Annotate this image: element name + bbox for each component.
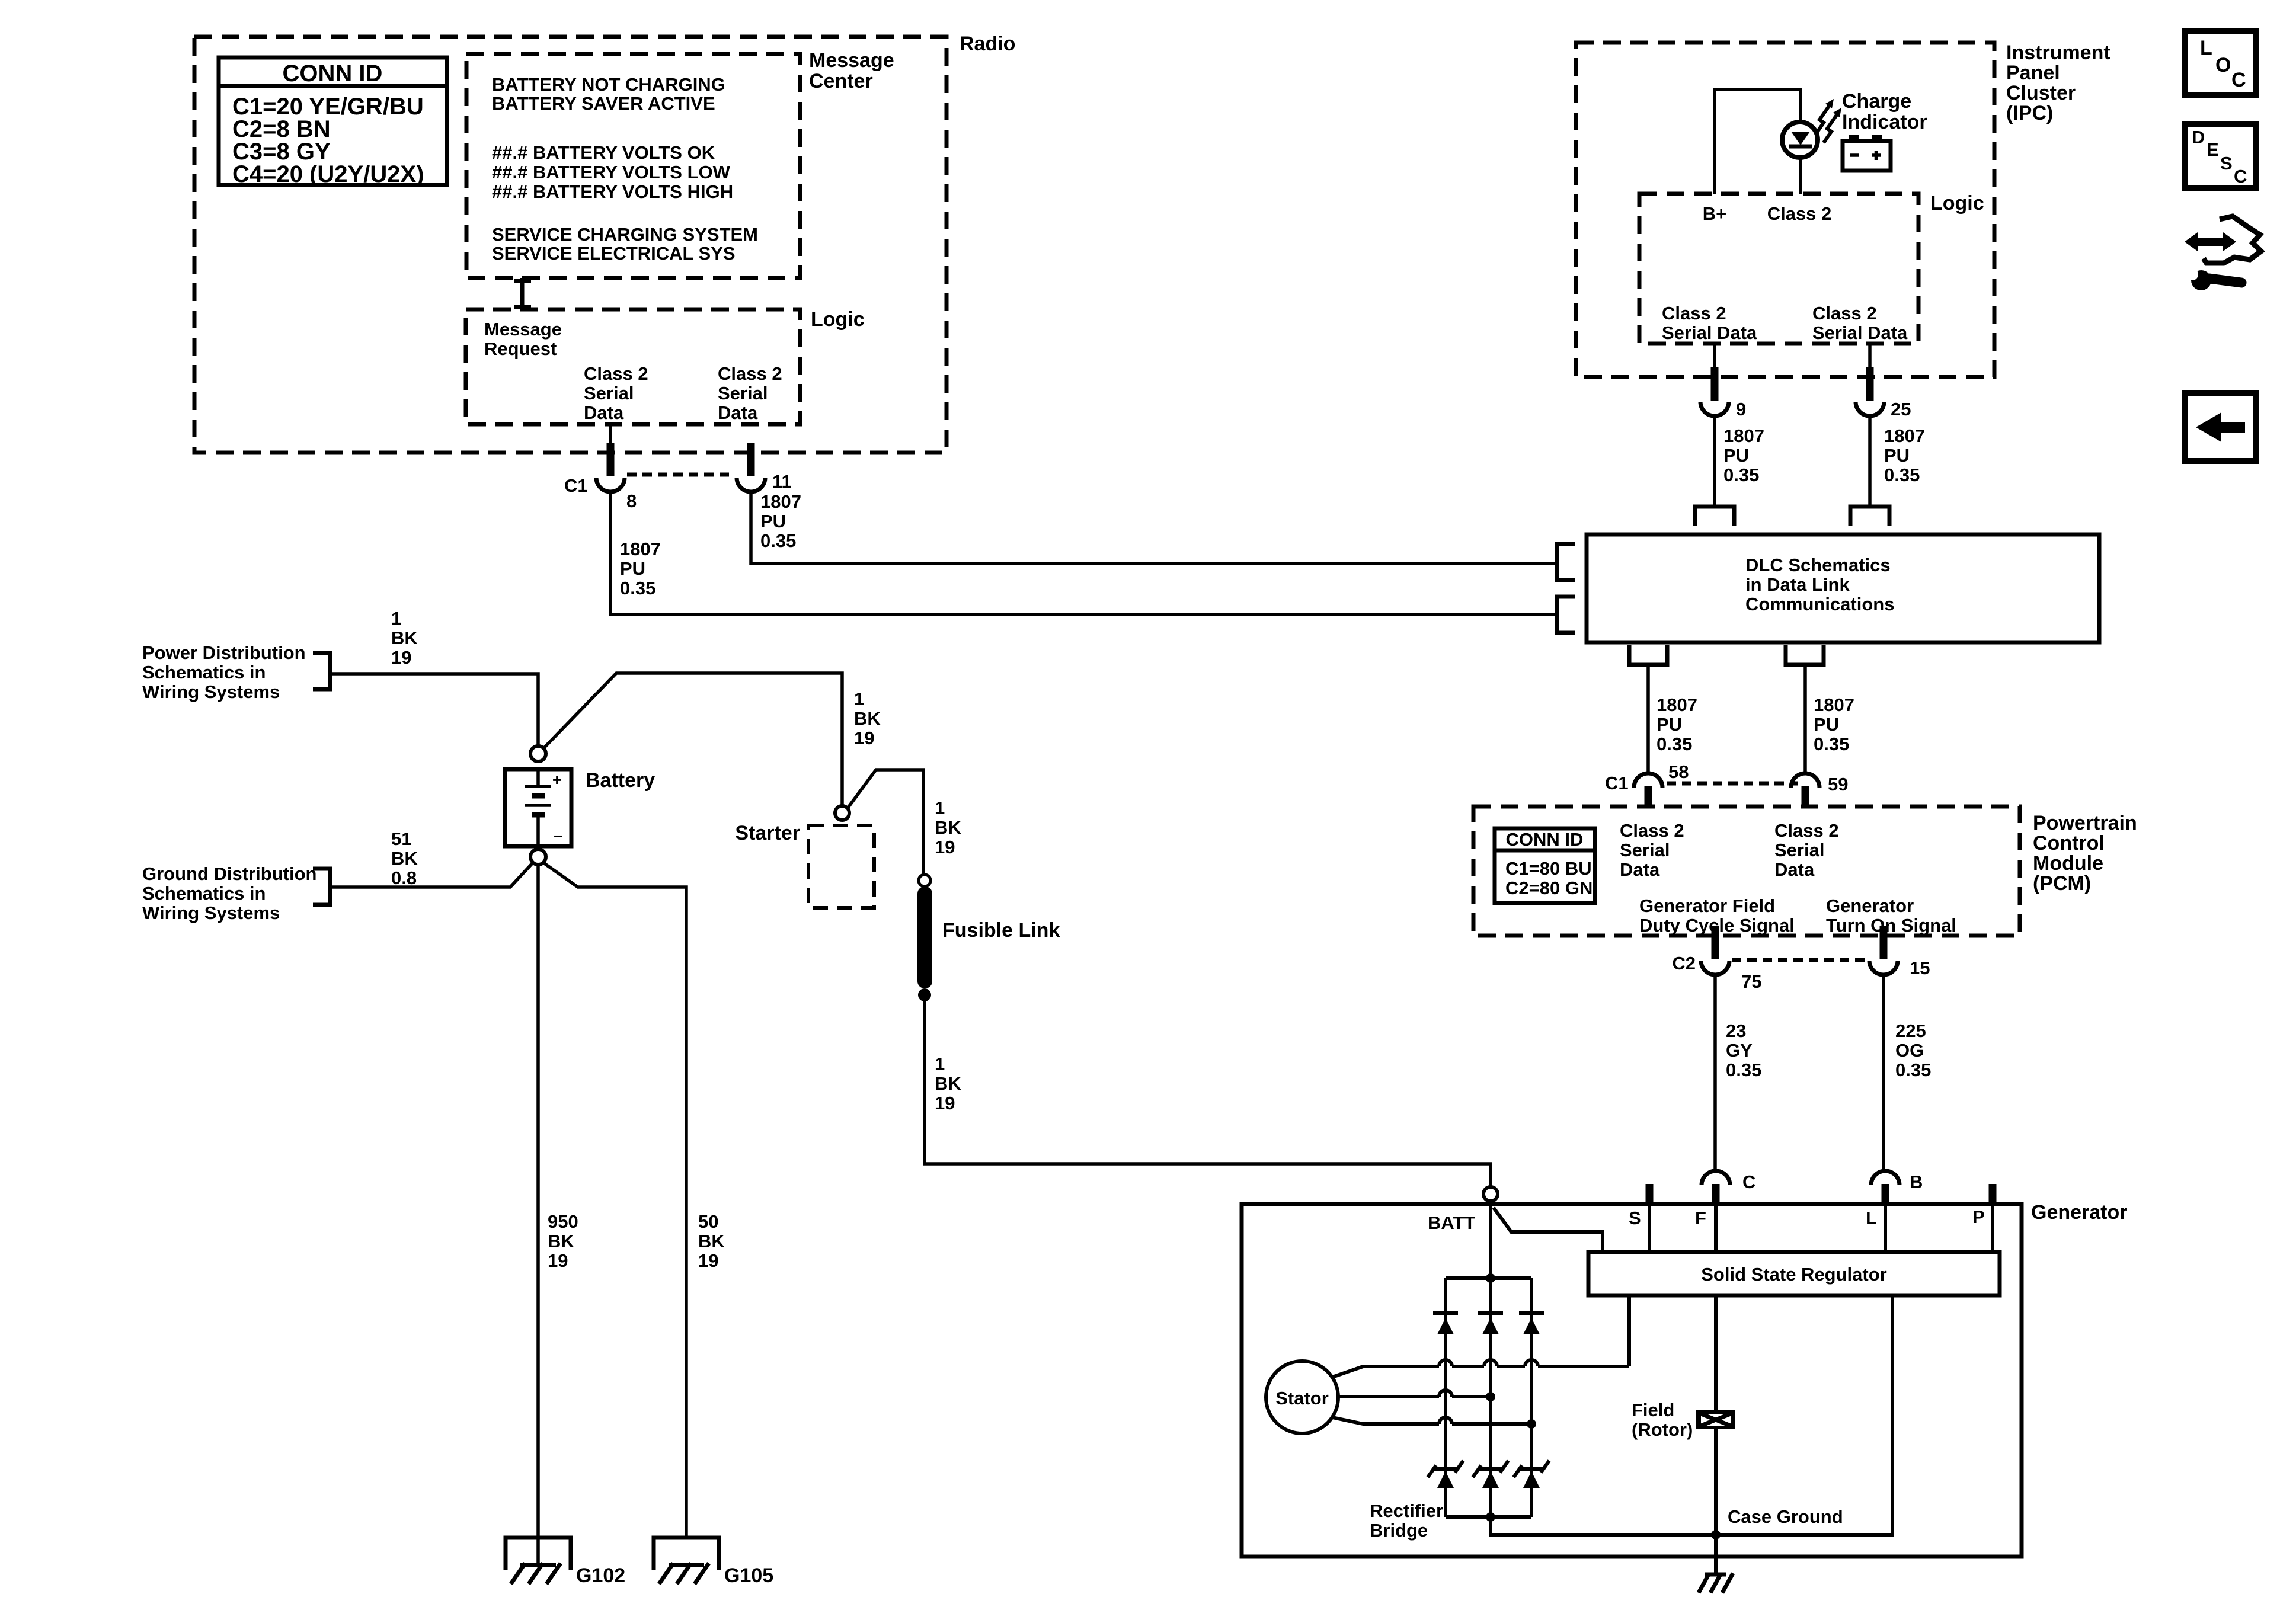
phase 2 junction — [1486, 1392, 1495, 1401]
svg-text:0.35: 0.35 — [1814, 734, 1849, 754]
svg-text:Charge: Charge — [1842, 90, 1911, 113]
svg-text:Schematics in: Schematics in — [142, 883, 266, 904]
svg-text:O: O — [2215, 54, 2231, 76]
S terminal stub — [1646, 1184, 1654, 1205]
battery icon — [1843, 135, 1891, 171]
svg-text:Radio: Radio — [960, 33, 1015, 55]
wire 23 GY to generator C — [1713, 975, 1717, 1173]
svg-text:1807: 1807 — [1884, 425, 1925, 446]
jump-to icon (double arrow, outline, wrench) — [2185, 216, 2261, 290]
svg-text:C4=20 (U2Y/U2X): C4=20 (U2Y/U2X) — [232, 161, 424, 187]
bridge column 1 — [1444, 1278, 1447, 1517]
F line — [1714, 1205, 1718, 1252]
svg-text:E: E — [2207, 139, 2219, 160]
svg-text:Serial: Serial — [1620, 840, 1670, 860]
svg-text:0.35: 0.35 — [1895, 1060, 1931, 1080]
lower diode 2 (avalanche) — [1479, 1467, 1502, 1471]
IPC label — [2006, 41, 2110, 124]
wire battery to starter — [543, 673, 842, 806]
connector pin 9 — [1700, 367, 1729, 416]
svg-text:8: 8 — [626, 491, 637, 511]
wire label 1807 PU 0.35 (pin 9) — [1723, 425, 1764, 485]
svg-text:BK: BK — [854, 708, 881, 729]
Class 2 Serial Data label (PCM right) — [1774, 820, 1839, 880]
svg-text:PU: PU — [1814, 714, 1839, 735]
svg-text:G105: G105 — [724, 1564, 773, 1587]
Power Distribution label — [142, 642, 306, 702]
svg-text:L: L — [2200, 37, 2212, 59]
Class 2 Serial Data label (PCM left) — [1620, 820, 1684, 880]
svg-text:S: S — [2220, 153, 2233, 174]
svg-text:Logic: Logic — [1930, 192, 1984, 215]
dashed connector link 75-15 — [1732, 958, 1868, 962]
svg-text:BATT: BATT — [1428, 1212, 1475, 1233]
svg-text:19: 19 — [698, 1250, 718, 1271]
svg-text:Class 2: Class 2 — [1662, 303, 1726, 324]
ground distribution bracket — [313, 869, 330, 905]
svg-text:1: 1 — [935, 1054, 945, 1074]
wire message center to logic — [514, 278, 531, 309]
svg-text:DLC Schematics: DLC Schematics — [1745, 555, 1891, 575]
svg-text:Serial: Serial — [1774, 840, 1824, 860]
svg-text:(Rotor): (Rotor) — [1632, 1419, 1693, 1440]
DLC box — [1587, 534, 2099, 642]
svg-text:BATTERY SAVER ACTIVE: BATTERY SAVER ACTIVE — [492, 93, 715, 114]
left entry bracket upper — [1557, 544, 1575, 580]
connector pin 11 — [737, 443, 765, 492]
svg-text:19: 19 — [854, 728, 874, 748]
svg-text:##.# BATTERY VOLTS HIGH: ##.# BATTERY VOLTS HIGH — [492, 181, 733, 202]
svg-text:Class 2: Class 2 — [584, 363, 648, 384]
svg-text:0.35: 0.35 — [760, 530, 796, 551]
svg-text:Turn On Signal: Turn On Signal — [1826, 915, 1956, 936]
svg-text:C: C — [1742, 1172, 1755, 1192]
svg-text:Powertrain: Powertrain — [2033, 812, 2137, 834]
IPC logic dashed box — [1639, 194, 1918, 344]
lightning arrows — [1816, 106, 1837, 143]
wire label 1807 PU 0.35 (pin 8) — [620, 539, 661, 598]
wire DLC to PCM 58 — [1646, 665, 1650, 773]
svg-text:0.35: 0.35 — [1657, 734, 1692, 754]
svg-text:950: 950 — [548, 1211, 578, 1232]
svg-text:CONN ID: CONN ID — [283, 60, 383, 87]
message center display text — [492, 74, 758, 264]
svg-text:1: 1 — [854, 689, 864, 709]
svg-text:0.35: 0.35 — [1723, 465, 1759, 485]
svg-text:−: − — [554, 827, 562, 845]
upper diode 1 — [1433, 1311, 1458, 1315]
svg-text:Data: Data — [1620, 859, 1660, 880]
svg-text:Request: Request — [484, 338, 557, 359]
svg-text:Bridge: Bridge — [1370, 1520, 1428, 1541]
regulator sense wire — [1627, 1295, 1631, 1366]
ground G105 — [654, 1538, 719, 1584]
svg-text:BK: BK — [698, 1231, 725, 1251]
field rotor symbol — [1696, 1410, 1735, 1429]
radio logic dashed box — [466, 309, 800, 424]
svg-text:Indicator: Indicator — [1842, 111, 1927, 133]
starter terminal — [835, 806, 849, 820]
svg-text:in Data Link: in Data Link — [1745, 574, 1850, 595]
svg-text:PU: PU — [760, 511, 786, 532]
svg-text:(PCM): (PCM) — [2033, 872, 2091, 895]
svg-text:Serial: Serial — [718, 383, 768, 404]
svg-text:59: 59 — [1828, 774, 1848, 795]
svg-text:PU: PU — [1884, 445, 1910, 466]
svg-text:Data: Data — [1774, 859, 1815, 880]
wire power distribution to battery — [330, 674, 538, 746]
connector pin 59 — [1791, 773, 1819, 808]
svg-text:Solid State Regulator: Solid State Regulator — [1701, 1264, 1886, 1285]
wire label 950 BK 19 — [548, 1211, 578, 1271]
Class 2 Serial Data label (radio right) — [718, 363, 782, 423]
stator phase wire 2 — [1338, 1390, 1491, 1397]
wire 225 OG to generator B — [1882, 975, 1885, 1173]
svg-text:Wiring Systems: Wiring Systems — [142, 681, 280, 702]
svg-text:BK: BK — [548, 1231, 574, 1251]
svg-text:Generator: Generator — [1826, 895, 1914, 916]
wire label 1 BK 19 (generator feed) — [935, 1054, 961, 1113]
wire label 1807 PU 0.35 (pin 25) — [1884, 425, 1925, 485]
wire label 1 BK 19 (battery feed) — [391, 608, 418, 668]
svg-text:Data: Data — [584, 402, 624, 423]
svg-text:BK: BK — [935, 1073, 961, 1094]
svg-text:19: 19 — [391, 647, 411, 668]
Class 2 Serial Data label (radio left) — [584, 363, 648, 423]
svg-text:+: + — [552, 771, 561, 789]
svg-text:1: 1 — [935, 798, 945, 818]
svg-text:Fusible Link: Fusible Link — [942, 919, 1060, 942]
svg-text:PU: PU — [1723, 445, 1749, 466]
Ground Distribution label — [142, 863, 316, 923]
solid state regulator box — [1588, 1252, 2000, 1295]
case ground junction — [1711, 1530, 1721, 1539]
junction BATT top rail — [1486, 1273, 1495, 1283]
left entry bracket lower — [1557, 597, 1575, 633]
svg-text:19: 19 — [935, 837, 955, 857]
svg-text:B+: B+ — [1703, 203, 1727, 224]
svg-text:Panel: Panel — [2006, 62, 2060, 84]
back arrow icon — [2185, 393, 2256, 461]
svg-text:C1=80 BU: C1=80 BU — [1505, 858, 1592, 879]
BATT to regulator wire — [1494, 1208, 1603, 1252]
wire label 51 BK 0.8 — [391, 828, 418, 888]
svg-text:Communications: Communications — [1745, 594, 1894, 614]
svg-text:0.8: 0.8 — [391, 868, 417, 888]
power distribution bracket — [313, 653, 330, 689]
svg-text:9: 9 — [1736, 399, 1746, 420]
BATT internal wire — [1489, 1201, 1492, 1278]
svg-text:OG: OG — [1895, 1040, 1924, 1061]
svg-text:C: C — [2231, 69, 2246, 91]
bottom rail — [1446, 1515, 1531, 1519]
svg-text:19: 19 — [935, 1093, 955, 1113]
wire label 1 BK 19 (starter feed) — [854, 689, 881, 748]
wire pin 11 to DLC — [751, 492, 1555, 564]
terminal bracket above DLC (right) — [1850, 507, 1889, 526]
charge indicator LED — [1782, 122, 1818, 158]
top rail — [1446, 1276, 1531, 1280]
wire label 1807 PU 0.35 (58) — [1657, 694, 1697, 754]
svg-text:GY: GY — [1726, 1040, 1753, 1061]
svg-text:BK: BK — [391, 628, 418, 648]
terminal bracket below DLC (left) — [1629, 645, 1667, 665]
wire DLC to PCM 59 — [1803, 665, 1807, 773]
svg-text:19: 19 — [548, 1250, 568, 1271]
wire pin 8 to DLC — [610, 492, 1555, 614]
svg-text:Case Ground: Case Ground — [1728, 1506, 1843, 1527]
bridge column 2 — [1489, 1278, 1492, 1517]
battery — [505, 769, 571, 846]
svg-text:L: L — [1866, 1208, 1877, 1228]
rectifier bridge — [1428, 1273, 1549, 1522]
svg-text:23: 23 — [1726, 1020, 1746, 1041]
svg-text:0.35: 0.35 — [1726, 1060, 1761, 1080]
svg-text:1: 1 — [391, 608, 401, 629]
starter dashed box — [808, 825, 874, 908]
case ground wire — [1491, 1295, 1892, 1535]
connector B (generator) — [1871, 1171, 1900, 1205]
svg-text:PU: PU — [1657, 714, 1682, 735]
radio module dashed box — [194, 37, 946, 453]
connector C2 pin 75 — [1701, 926, 1729, 975]
svg-text:##.# BATTERY VOLTS LOW: ##.# BATTERY VOLTS LOW — [492, 162, 731, 183]
bridge column 3 — [1530, 1278, 1533, 1517]
svg-text:50: 50 — [698, 1211, 718, 1232]
battery negative terminal — [530, 849, 546, 865]
svg-text:225: 225 — [1895, 1020, 1926, 1041]
svg-text:11: 11 — [772, 471, 792, 492]
svg-text:Schematics in: Schematics in — [142, 662, 266, 683]
svg-text:S: S — [1629, 1208, 1641, 1228]
svg-text:Class 2: Class 2 — [718, 363, 782, 384]
svg-text:Power Distribution: Power Distribution — [142, 642, 306, 663]
case ground symbol — [1699, 1573, 1733, 1593]
PCM dashed box — [1473, 806, 2020, 936]
svg-text:##.# BATTERY VOLTS OK: ##.# BATTERY VOLTS OK — [492, 142, 715, 163]
wire starter to fusible link — [848, 770, 923, 875]
connector C1 pin 58 — [1634, 773, 1662, 808]
stator — [1266, 1361, 1338, 1433]
svg-text:Cluster: Cluster — [2006, 82, 2076, 104]
svg-text:(IPC): (IPC) — [2006, 102, 2053, 124]
svg-text:F: F — [1695, 1208, 1706, 1228]
wire label 225 OG 0.35 — [1895, 1020, 1931, 1080]
svg-text:Logic: Logic — [811, 308, 865, 331]
svg-text:C1: C1 — [564, 475, 588, 496]
svg-text:Center: Center — [809, 70, 873, 92]
battery positive terminal — [530, 746, 546, 761]
svg-text:1807: 1807 — [620, 539, 661, 559]
Message Center dashed box — [466, 54, 800, 278]
stator phase wire 1 — [1332, 1360, 1629, 1377]
svg-text:BK: BK — [935, 817, 961, 838]
svg-text:G102: G102 — [576, 1564, 625, 1587]
svg-text:Generator Field: Generator Field — [1639, 895, 1775, 916]
fusible link — [917, 875, 932, 1001]
svg-text:P: P — [1972, 1206, 1985, 1227]
svg-text:1807: 1807 — [1723, 425, 1764, 446]
svg-text:Class 2: Class 2 — [1620, 820, 1684, 841]
P line — [1991, 1205, 1994, 1252]
DLC text — [1745, 555, 1894, 614]
svg-text:0.35: 0.35 — [1884, 465, 1920, 485]
connector C1 pin 8 — [596, 443, 625, 492]
wire label 1 BK 19 (fusible feed) — [935, 798, 961, 857]
svg-text:D: D — [2192, 127, 2205, 148]
generator box — [1242, 1204, 2022, 1557]
svg-text:1807: 1807 — [1657, 694, 1697, 715]
svg-text:BATTERY NOT CHARGING: BATTERY NOT CHARGING — [492, 74, 725, 95]
svg-text:BK: BK — [391, 848, 418, 869]
L line — [1884, 1205, 1887, 1252]
wire label 50 BK 19 — [698, 1211, 725, 1271]
svg-text:Battery: Battery — [586, 769, 655, 792]
svg-text:75: 75 — [1741, 971, 1761, 992]
wire B+ to charge indicator — [1715, 89, 1801, 194]
wire battery to G102 — [536, 865, 540, 1565]
svg-text:Stator: Stator — [1275, 1388, 1329, 1409]
junction bottom rail — [1486, 1512, 1495, 1522]
svg-text:PU: PU — [620, 558, 645, 579]
DESC icon — [2185, 124, 2256, 188]
field rotor wire upper — [1714, 1295, 1718, 1410]
wire battery to G105 — [543, 863, 686, 1537]
svg-text:C2: C2 — [1672, 953, 1696, 974]
stator phase wire 3 — [1332, 1417, 1531, 1424]
IPC pin 25 wire stub — [1868, 344, 1872, 370]
BATT terminal — [1483, 1187, 1498, 1201]
lower diode 3 (avalanche) — [1520, 1467, 1543, 1471]
PCM label — [2033, 812, 2137, 895]
svg-text:Class 2: Class 2 — [1767, 203, 1832, 224]
svg-text:51: 51 — [391, 828, 411, 849]
wire label 23 GY 0.35 — [1726, 1020, 1761, 1080]
svg-text:Starter: Starter — [735, 822, 800, 844]
svg-text:Serial: Serial — [584, 383, 634, 404]
radio CONN ID table — [219, 57, 447, 187]
connector pin 25 — [1856, 367, 1884, 416]
svg-text:Field: Field — [1632, 1400, 1674, 1420]
svg-text:25: 25 — [1891, 399, 1911, 420]
IPC pin 9 wire stub — [1713, 344, 1716, 370]
svg-text:Instrument: Instrument — [2006, 41, 2110, 64]
svg-text:Rectifier: Rectifier — [1370, 1500, 1443, 1521]
svg-text:Serial Data: Serial Data — [1662, 322, 1757, 343]
svg-text:Generator: Generator — [2031, 1201, 2128, 1224]
upper diode 3 — [1519, 1311, 1544, 1315]
svg-text:Message: Message — [809, 49, 894, 72]
phase 3 junction — [1527, 1419, 1536, 1429]
wire fusible link to BATT — [925, 1001, 1491, 1186]
svg-text:Ground Distribution: Ground Distribution — [142, 863, 316, 884]
svg-text:Data: Data — [718, 402, 758, 423]
svg-text:C: C — [2234, 166, 2247, 187]
IPC dashed box — [1576, 43, 1994, 377]
S line — [1648, 1205, 1651, 1252]
terminal bracket above DLC (left) — [1695, 507, 1734, 526]
svg-text:15: 15 — [1910, 958, 1930, 978]
svg-text:Message: Message — [484, 319, 562, 340]
wire label 1807 PU 0.35 (59) — [1814, 694, 1854, 754]
svg-text:58: 58 — [1668, 761, 1689, 782]
connector C (generator) — [1702, 1171, 1730, 1205]
svg-text:CONN ID: CONN ID — [1506, 829, 1584, 850]
wire pin 25 to DLC — [1868, 416, 1872, 507]
wire label 1807 PU 0.35 (pin 11) — [760, 491, 801, 551]
svg-text:SERVICE ELECTRICAL SYS: SERVICE ELECTRICAL SYS — [492, 243, 736, 264]
connector pin 15 — [1869, 926, 1898, 975]
P terminal stub — [1989, 1184, 1997, 1205]
lower diode 1 (avalanche) — [1434, 1467, 1457, 1471]
terminal bracket below DLC (right) — [1786, 645, 1824, 665]
svg-text:0.35: 0.35 — [620, 578, 655, 598]
svg-text:C2=80 GN: C2=80 GN — [1505, 878, 1593, 898]
wire ground distribution to battery — [330, 863, 533, 887]
svg-text:Module: Module — [2033, 852, 2103, 875]
svg-text:SERVICE CHARGING SYSTEM: SERVICE CHARGING SYSTEM — [492, 224, 758, 245]
svg-text:Serial Data: Serial Data — [1812, 322, 1908, 343]
field rotor wire lower — [1714, 1429, 1718, 1574]
svg-text:1807: 1807 — [760, 491, 801, 512]
wire radio pin 8 stub — [609, 424, 612, 446]
dashed connector link 8-11 — [627, 473, 735, 477]
svg-text:C1: C1 — [1605, 773, 1629, 793]
wire pin 9 to DLC — [1713, 416, 1716, 507]
dashed connector link 58-59 — [1667, 782, 1798, 786]
PCM CONN ID table — [1495, 828, 1595, 903]
svg-text:Class 2: Class 2 — [1812, 303, 1877, 324]
ground G102 — [506, 1538, 571, 1584]
svg-text:Wiring Systems: Wiring Systems — [142, 902, 280, 923]
svg-text:Class 2: Class 2 — [1774, 820, 1839, 841]
upper diode 2 — [1478, 1311, 1503, 1315]
svg-text:B: B — [1910, 1172, 1923, 1192]
LOC icon — [2185, 31, 2256, 95]
svg-text:1807: 1807 — [1814, 694, 1854, 715]
svg-text:Control: Control — [2033, 832, 2105, 854]
